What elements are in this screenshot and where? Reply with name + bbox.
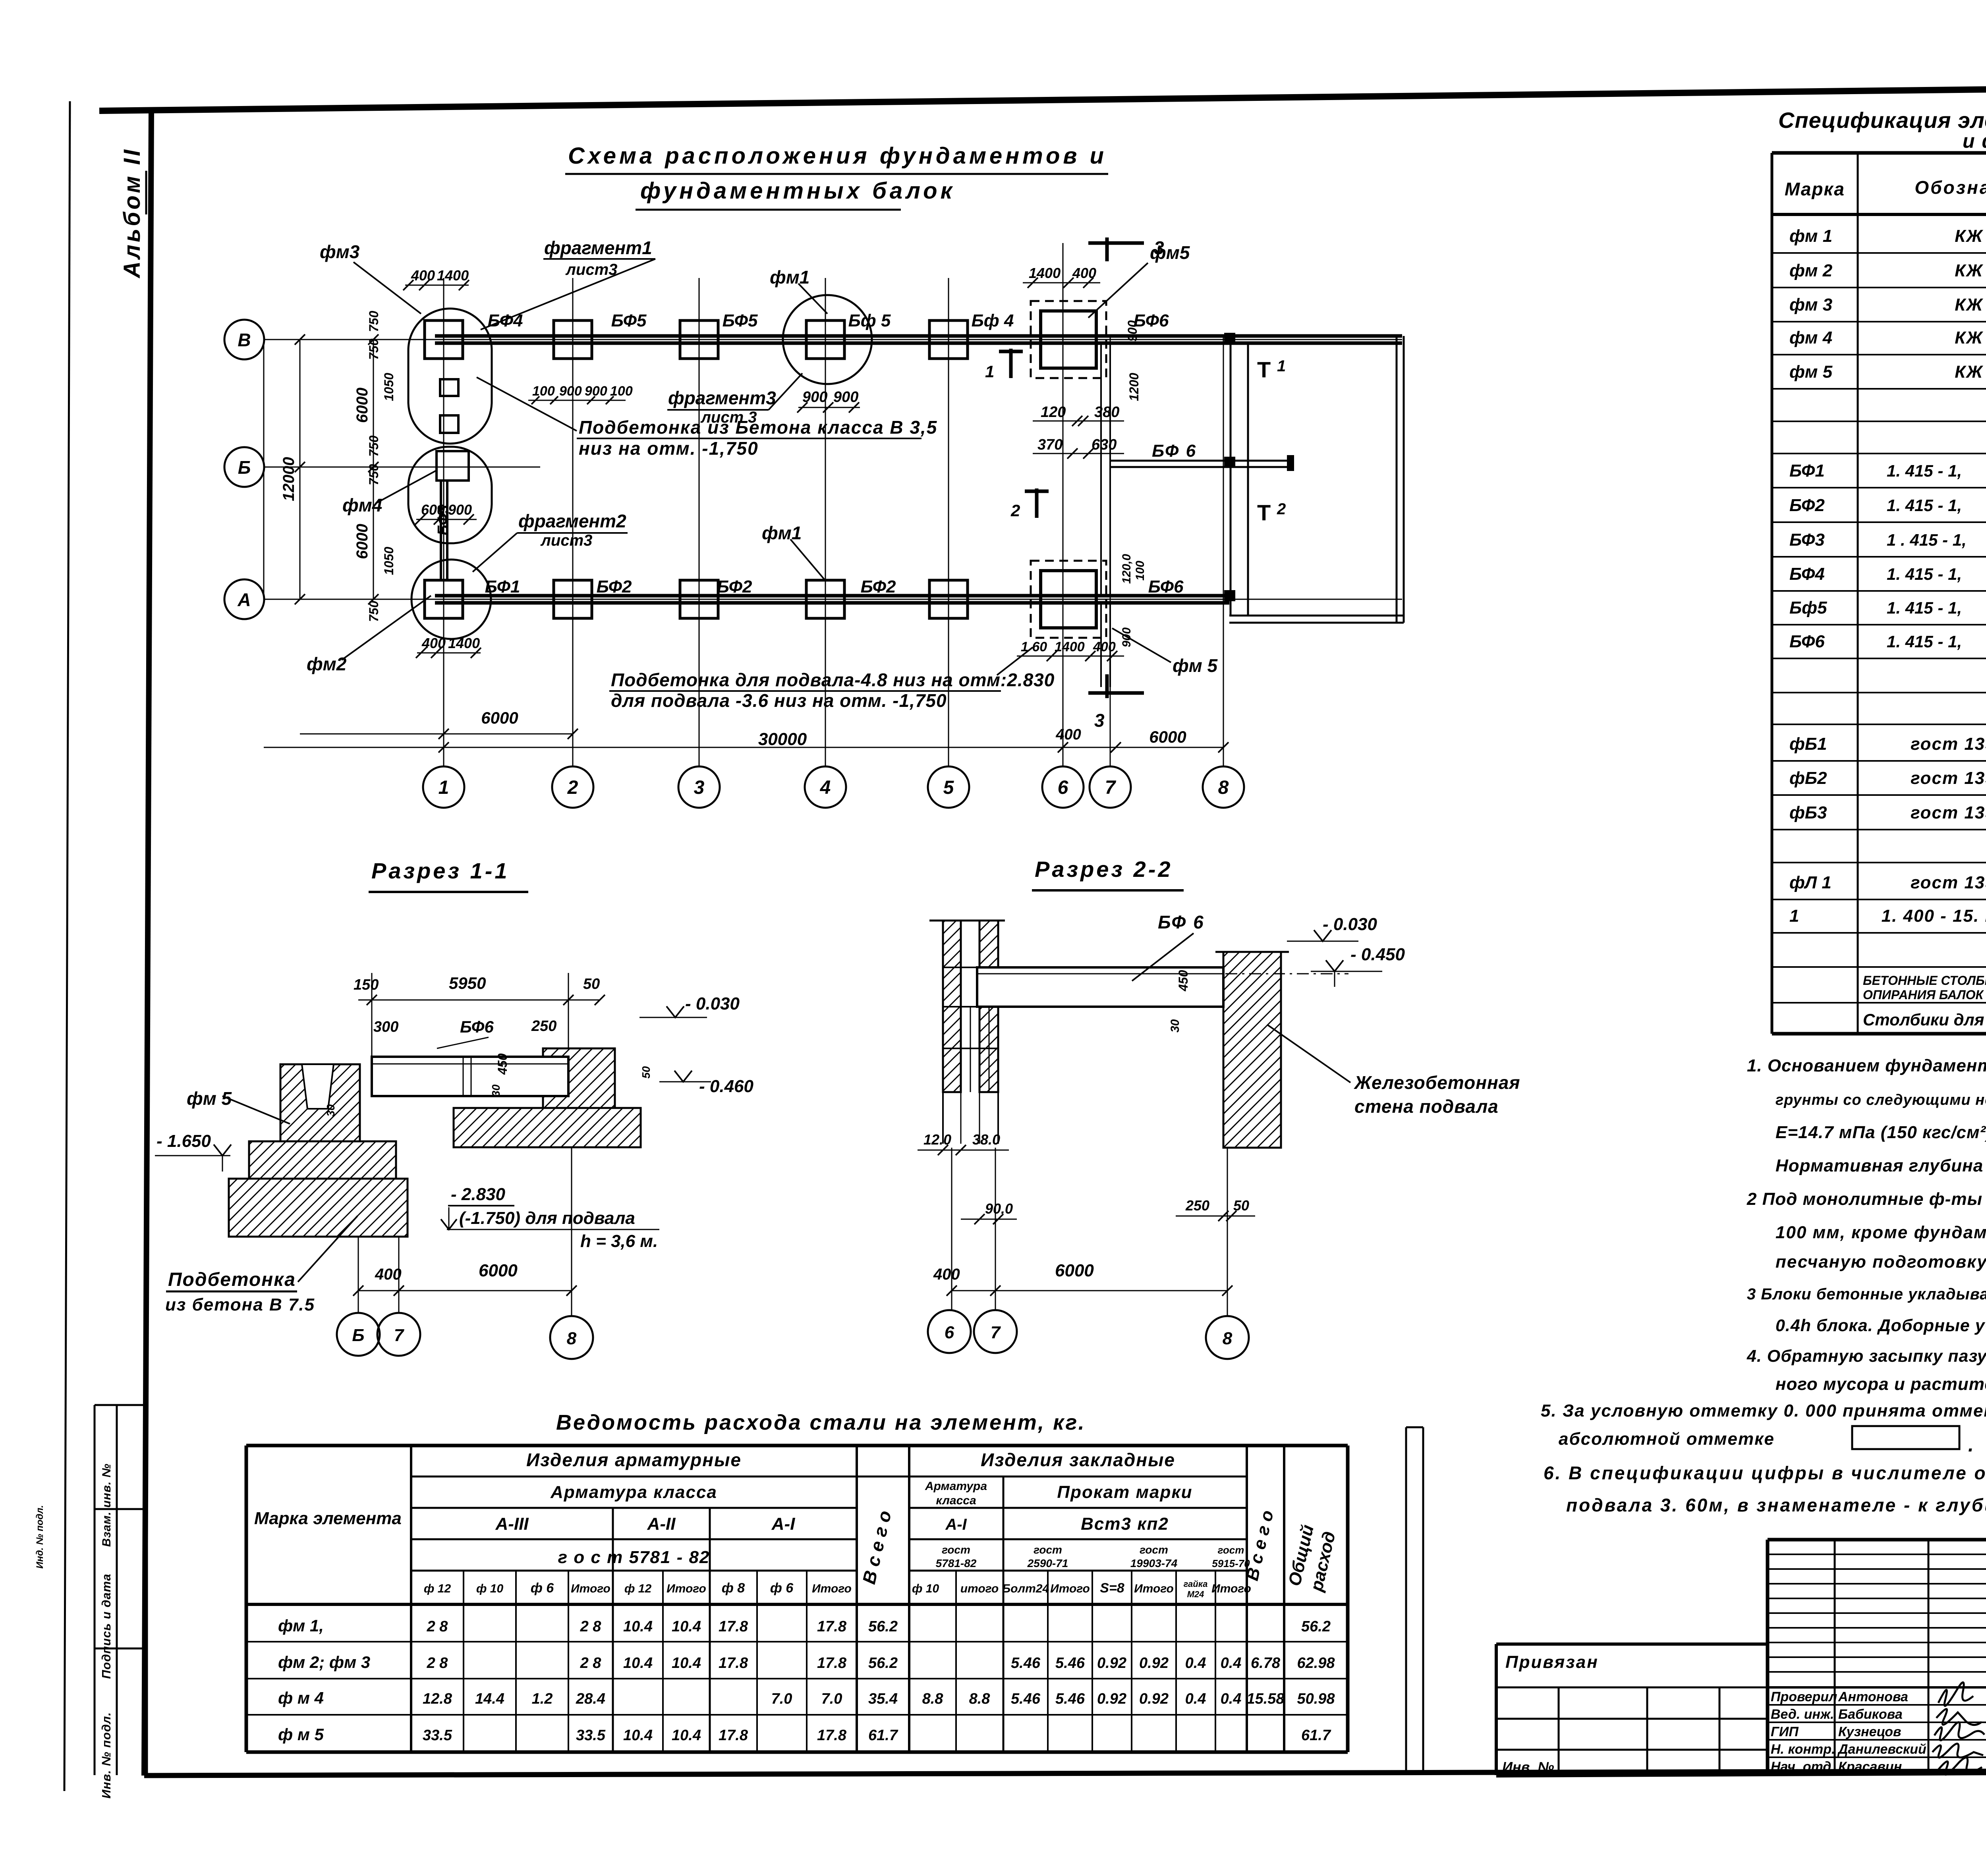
svg-text:Бф 5: Бф 5 (848, 311, 891, 330)
svg-text:гост: гост (1140, 1544, 1168, 1556)
svg-text:1. Основанием фундаментов пр: 1. Основанием фундаментов приняты сухие,… (1747, 1056, 1986, 1075)
svg-text:фм5: фм5 (1150, 242, 1190, 263)
svg-text:900: 900 (585, 384, 607, 399)
svg-text:8.8: 8.8 (969, 1691, 991, 1707)
svg-text:2 8: 2 8 (580, 1655, 602, 1671)
svg-text:БФ 6: БФ 6 (1158, 912, 1205, 932)
svg-text:БФ6: БФ6 (1789, 632, 1825, 651)
svg-text:8: 8 (567, 1329, 577, 1348)
svg-text:фундаментных балок: фундаментных балок (640, 178, 955, 204)
svg-text:7: 7 (394, 1326, 405, 1345)
svg-text:50: 50 (583, 976, 600, 992)
svg-text:1: 1 (985, 362, 994, 381)
svg-text:400: 400 (1055, 726, 1081, 743)
svg-text:Нормативная глубина промер: Нормативная глубина промерзания грунтов … (1775, 1156, 1986, 1175)
svg-text:1: 1 (439, 777, 449, 798)
svg-text:6000: 6000 (1055, 1261, 1094, 1280)
svg-text:Итого: Итого (1050, 1582, 1090, 1595)
svg-text:Вед. инж.: Вед. инж. (1771, 1707, 1834, 1722)
svg-text:2 8: 2 8 (580, 1618, 602, 1635)
svg-text:Подбетонка из Бетона класса: Подбетонка из Бетона класса В 3,5 (579, 417, 937, 438)
svg-text:7.0: 7.0 (821, 1691, 842, 1707)
svg-text:62.98: 62.98 (1297, 1655, 1335, 1671)
svg-text:61.7: 61.7 (868, 1727, 898, 1744)
svg-text:гост 13579 - 78: гост 13579 - 78 (1911, 768, 1986, 788)
svg-text:Антонова: Антонова (1838, 1689, 1908, 1704)
svg-text:2 8: 2 8 (427, 1655, 448, 1671)
svg-text:33.5: 33.5 (576, 1727, 606, 1744)
svg-text:17.8: 17.8 (719, 1655, 748, 1671)
svg-text:35.4: 35.4 (868, 1691, 898, 1707)
svg-text:7.0: 7.0 (771, 1691, 792, 1707)
svg-text:КЖ - 4: КЖ - 4 (1955, 362, 1986, 382)
svg-text:КЖ - 4: КЖ - 4 (1955, 295, 1986, 315)
svg-text:3: 3 (694, 777, 705, 798)
svg-text:низ на отм. -1,750: низ на отм. -1,750 (579, 438, 759, 459)
svg-text:А-III: А-III (495, 1514, 529, 1534)
svg-text:ф м 5: ф м 5 (278, 1725, 324, 1744)
svg-text:6000: 6000 (481, 708, 518, 727)
svg-text:КЖ - 4: КЖ - 4 (1955, 261, 1986, 280)
svg-text:Е=14.7 мПа (150 кгс/см²) ; γ =: Е=14.7 мПа (150 кгс/см²) ; γ = 1.8 т/м³ … (1775, 1123, 1986, 1142)
svg-text:900: 900 (833, 389, 858, 405)
svg-text:12.8: 12.8 (423, 1691, 452, 1707)
svg-text:1400: 1400 (1029, 265, 1061, 281)
svg-text:фм 1: фм 1 (1789, 226, 1832, 246)
svg-text:8: 8 (1223, 1329, 1233, 1348)
svg-text:1200: 1200 (1127, 373, 1141, 401)
svg-text:Т: Т (1257, 357, 1271, 382)
svg-text:0.4: 0.4 (1221, 1691, 1242, 1707)
svg-text:БФ6: БФ6 (460, 1017, 494, 1036)
svg-text:0.4h блока. Доборные участки: 0.4h блока. Доборные участки и шпонки за… (1775, 1316, 1986, 1335)
svg-text:10.4: 10.4 (623, 1618, 653, 1635)
svg-text:5781-82: 5781-82 (936, 1557, 977, 1569)
svg-text:фм 5: фм 5 (1173, 655, 1218, 676)
svg-text:Б: Б (352, 1326, 364, 1345)
svg-text:8.8: 8.8 (922, 1691, 944, 1707)
svg-text:630: 630 (1092, 436, 1117, 453)
svg-text:100 мм, кроме фундаментов п: 100 мм, кроме фундаментов по оси 6. Под … (1775, 1223, 1986, 1242)
svg-text:ф 12: ф 12 (624, 1582, 652, 1595)
svg-text:БФ1: БФ1 (1789, 461, 1825, 481)
svg-text:Подбетонка: Подбетонка (168, 1269, 296, 1290)
svg-text:5.46: 5.46 (1011, 1655, 1041, 1671)
svg-text:30: 30 (490, 1084, 502, 1097)
svg-text:Разрез 2-2: Разрез 2-2 (1035, 857, 1173, 882)
svg-text:50: 50 (640, 1066, 652, 1079)
svg-text:БЕТОННЫЕ СТОЛБИКИ ДЛЯ: БЕТОННЫЕ СТОЛБИКИ ДЛЯ (1863, 973, 1986, 988)
svg-text:Арматура: Арматура (925, 1480, 987, 1493)
svg-text:5.46: 5.46 (1055, 1655, 1085, 1671)
svg-text:Бабикова: Бабикова (1838, 1707, 1903, 1722)
svg-text:Схема расположения фундаме: Схема расположения фундаментов и (568, 143, 1107, 169)
svg-text:6: 6 (945, 1323, 954, 1342)
svg-text:фБ1: фБ1 (1789, 734, 1827, 754)
svg-text:7: 7 (1105, 777, 1117, 798)
svg-text:56.2: 56.2 (868, 1618, 898, 1635)
svg-text:1 . 415 - 1,: 1 . 415 - 1, (1887, 531, 1967, 549)
svg-text:5: 5 (943, 777, 954, 798)
svg-text:гост: гост (1034, 1544, 1062, 1556)
svg-text:Итого: Итого (667, 1582, 706, 1595)
svg-text:ф 12: ф 12 (424, 1582, 451, 1595)
svg-text:Проверил: Проверил (1771, 1689, 1837, 1704)
svg-text:6000: 6000 (354, 524, 371, 559)
svg-text:абсолютной отметке: абсолютной отметке (1559, 1429, 1775, 1449)
svg-text:56.2: 56.2 (1301, 1618, 1331, 1635)
svg-text:1: 1 (1789, 906, 1799, 926)
svg-text:Арматура класса: Арматура класса (550, 1482, 717, 1502)
svg-text:БФ5: БФ5 (611, 311, 647, 330)
svg-text:фм 1,: фм 1, (278, 1616, 324, 1635)
svg-text:33.5: 33.5 (423, 1727, 452, 1744)
svg-text:8: 8 (1218, 777, 1229, 798)
svg-text:3: 3 (1094, 710, 1105, 731)
svg-text:БФ2: БФ2 (1789, 496, 1825, 515)
svg-text:6000: 6000 (479, 1261, 518, 1280)
svg-text:1050: 1050 (382, 547, 396, 575)
svg-text:БФ2: БФ2 (717, 577, 752, 596)
svg-text:Итого: Итого (812, 1582, 852, 1595)
svg-text:17.8: 17.8 (817, 1618, 847, 1635)
svg-text:класса: класса (936, 1494, 976, 1507)
svg-text:- 0.460: - 0.460 (699, 1077, 754, 1096)
svg-text:фБ2: фБ2 (1789, 768, 1827, 788)
svg-text:Красавин: Красавин (1838, 1759, 1902, 1774)
svg-text:Альбом II: Альбом II (119, 147, 145, 279)
svg-text:М24: М24 (1187, 1589, 1204, 1599)
svg-text:30: 30 (1169, 1019, 1182, 1033)
svg-text:380: 380 (1094, 404, 1119, 421)
svg-text:10.4: 10.4 (623, 1655, 653, 1671)
svg-text:900: 900 (1120, 627, 1133, 647)
svg-text:900: 900 (559, 384, 582, 399)
svg-text:.: . (1968, 1434, 1974, 1456)
svg-text:фБ3: фБ3 (1789, 803, 1827, 822)
svg-text:- 2.830: - 2.830 (451, 1185, 506, 1204)
svg-text:гайка: гайка (1184, 1579, 1208, 1589)
svg-text:400: 400 (1093, 639, 1116, 654)
svg-text:2590-71: 2590-71 (1027, 1557, 1068, 1569)
svg-text:Изделия закладные: Изделия закладные (981, 1449, 1175, 1470)
svg-text:фм 5: фм 5 (187, 1088, 232, 1109)
svg-text:0.92: 0.92 (1139, 1655, 1169, 1671)
svg-text:450: 450 (1176, 970, 1190, 992)
svg-text:В: В (238, 330, 251, 350)
svg-text:Итого: Итого (1134, 1582, 1174, 1595)
svg-text:ф 6: ф 6 (770, 1581, 794, 1596)
svg-text:- 0.450: - 0.450 (1350, 945, 1405, 964)
svg-text:ф 8: ф 8 (722, 1581, 745, 1596)
svg-text:370: 370 (1037, 436, 1063, 453)
svg-text:Инв. № подл.: Инв. № подл. (99, 1712, 113, 1799)
svg-text:19903-74: 19903-74 (1130, 1557, 1178, 1569)
svg-text:1. 415 - 1,: 1. 415 - 1, (1887, 565, 1962, 583)
svg-text:Изделия арматурные: Изделия арматурные (526, 1449, 742, 1470)
svg-text:- 1.650: - 1.650 (156, 1131, 211, 1151)
svg-text:А-I: А-I (771, 1514, 795, 1534)
svg-text:фрагмент2: фрагмент2 (518, 511, 626, 531)
svg-text:(-1.750) для подвала: (-1.750) для подвала (459, 1208, 635, 1228)
svg-text:лист3: лист3 (540, 532, 592, 549)
svg-text:1: 1 (1277, 357, 1286, 375)
svg-text:Марка: Марка (1785, 179, 1845, 199)
svg-text:1400: 1400 (448, 635, 480, 651)
svg-text:гост 13579 - 78: гост 13579 - 78 (1911, 803, 1986, 822)
svg-text:фрагмент3: фрагмент3 (668, 388, 776, 408)
svg-text:4. Обратную засыпку пазух ф: 4. Обратную засыпку пазух фундаментов пр… (1746, 1347, 1986, 1366)
svg-text:0.4: 0.4 (1185, 1691, 1206, 1707)
svg-text:Спецификация элементов к сх: Спецификация элементов к схеме расположе… (1778, 108, 1986, 133)
svg-text:50.98: 50.98 (1297, 1691, 1335, 1707)
svg-text:Бф 4: Бф 4 (972, 311, 1014, 330)
svg-text:Инд. № подл.: Инд. № подл. (35, 1505, 45, 1569)
svg-text:БФ6: БФ6 (1148, 577, 1184, 596)
svg-text:- 0.030: - 0.030 (685, 994, 740, 1013)
svg-text:1 60: 1 60 (1021, 639, 1047, 654)
svg-text:7: 7 (991, 1323, 1001, 1342)
svg-text:6000: 6000 (354, 388, 371, 423)
svg-text:ф м 4: ф м 4 (278, 1689, 324, 1707)
svg-text:17.8: 17.8 (719, 1727, 748, 1744)
svg-text:из бетона В 7.5: из бетона В 7.5 (165, 1295, 315, 1314)
svg-text:фЛ 1: фЛ 1 (1789, 873, 1831, 892)
svg-text:песчаную подготовку толщиной: песчаную подготовку толщиной 100 мм . (1775, 1252, 1986, 1272)
svg-text:5.46: 5.46 (1055, 1691, 1085, 1707)
svg-text:Н. контр.: Н. контр. (1771, 1742, 1835, 1757)
svg-text:Бф5: Бф5 (1789, 598, 1827, 618)
svg-text:Болт24: Болт24 (1002, 1582, 1049, 1595)
svg-text:0.92: 0.92 (1097, 1691, 1126, 1707)
svg-text:2: 2 (1277, 500, 1286, 518)
svg-text:12000: 12000 (280, 457, 298, 501)
svg-text:120: 120 (1041, 404, 1066, 421)
svg-text:Вст3 кп2: Вст3 кп2 (1081, 1514, 1169, 1534)
svg-text:10.4: 10.4 (623, 1727, 653, 1744)
svg-text:0.92: 0.92 (1097, 1655, 1126, 1671)
svg-text:400: 400 (411, 267, 435, 284)
svg-text:КЖ - 4: КЖ - 4 (1955, 328, 1986, 347)
svg-text:90.0: 90.0 (985, 1200, 1013, 1217)
svg-text:250: 250 (531, 1018, 556, 1035)
svg-text:фм1: фм1 (762, 523, 802, 543)
svg-text:БФ2: БФ2 (861, 577, 896, 596)
svg-text:Б: Б (238, 457, 251, 478)
svg-text:5. За условную отметку 0. 0: 5. За условную отметку 0. 000 принята от… (1541, 1401, 1986, 1421)
svg-text:0.4: 0.4 (1221, 1655, 1242, 1671)
svg-text:фм 5: фм 5 (1789, 362, 1833, 382)
svg-text:2: 2 (1010, 501, 1020, 520)
svg-text:и фундаментных балок .: и фундаментных балок . (1963, 130, 1986, 152)
svg-text:Итого: Итого (571, 1582, 610, 1595)
svg-text:Взам. инв. №: Взам. инв. № (100, 1463, 113, 1547)
svg-text:гост: гост (942, 1544, 970, 1556)
svg-text:1400: 1400 (1055, 639, 1085, 654)
svg-text:БФ1: БФ1 (485, 577, 520, 596)
svg-text:ГИП: ГИП (1771, 1724, 1799, 1739)
svg-text:А: А (237, 589, 251, 610)
svg-text:17.8: 17.8 (817, 1655, 847, 1671)
svg-text:фм4: фм4 (342, 495, 382, 515)
svg-text:Инв. №: Инв. № (1502, 1759, 1554, 1775)
svg-text:2: 2 (567, 777, 578, 798)
svg-text:250: 250 (1185, 1197, 1209, 1214)
svg-text:гост 13579 - 78: гост 13579 - 78 (1911, 734, 1986, 754)
svg-text:61.7: 61.7 (1301, 1727, 1331, 1744)
svg-text:0.92: 0.92 (1139, 1691, 1169, 1707)
svg-text:БФ3: БФ3 (1789, 530, 1825, 550)
svg-text:1. 415 - 1,: 1. 415 - 1, (1887, 598, 1962, 617)
svg-text:1.2: 1.2 (532, 1691, 553, 1707)
svg-text:5.46: 5.46 (1011, 1691, 1041, 1707)
svg-text:14.4: 14.4 (475, 1691, 504, 1707)
svg-text:Обозначение: Обозначение (1915, 177, 1986, 198)
svg-text:1050: 1050 (382, 373, 396, 401)
svg-text:6: 6 (1058, 777, 1068, 798)
svg-text:Железобетонная: Железобетонная (1354, 1072, 1520, 1093)
svg-text:56.2: 56.2 (868, 1655, 898, 1671)
svg-text:А-I: А-I (945, 1516, 967, 1533)
svg-text:Нач. отд: Нач. отд (1771, 1759, 1831, 1774)
svg-text:100: 100 (1134, 561, 1147, 581)
svg-text:400: 400 (375, 1266, 402, 1283)
svg-text:1. 400 - 15. В1 540 - 05: 1. 400 - 15. В1 540 - 05 (1882, 906, 1986, 926)
svg-text:Столбики для ворот: Столбики для ворот (1863, 1010, 1986, 1029)
svg-text:10.4: 10.4 (672, 1727, 701, 1744)
svg-text:Данилевский: Данилевский (1837, 1742, 1926, 1757)
svg-text:фм 4: фм 4 (1789, 328, 1832, 347)
svg-text:5950: 5950 (449, 974, 486, 992)
svg-text:БФ4: БФ4 (1789, 564, 1825, 584)
svg-text:ОПИРАНИЯ БАЛОК: ОПИРАНИЯ БАЛОК (1863, 988, 1984, 1002)
svg-text:г о с т 5781 - 82: г о с т 5781 - 82 (558, 1548, 710, 1567)
svg-text:итого: итого (960, 1582, 999, 1595)
svg-text:Марка элемента: Марка элемента (254, 1509, 402, 1528)
svg-text:БФ2: БФ2 (597, 577, 632, 596)
svg-text:6. В спецификации цифры: 6. В спецификации цифры в числителе отно… (1544, 1463, 1986, 1483)
svg-text:фм 2: фм 2 (1789, 261, 1833, 280)
svg-text:стена подвала: стена подвала (1354, 1096, 1499, 1117)
svg-text:1. 415 - 1,: 1. 415 - 1, (1887, 461, 1962, 480)
svg-text:17.8: 17.8 (719, 1618, 748, 1635)
svg-text:Подбетонка для подвала-4.8 ни: Подбетонка для подвала-4.8 низ на отм:2.… (611, 670, 1055, 690)
svg-text:28.4: 28.4 (576, 1691, 605, 1707)
svg-text:1. 415 - 1,: 1. 415 - 1, (1887, 496, 1962, 515)
svg-text:3 Блоки бетонные укладывать: 3 Блоки бетонные укладывать на цементно-… (1747, 1285, 1986, 1303)
svg-text:2 8: 2 8 (427, 1618, 448, 1635)
svg-text:450: 450 (495, 1053, 510, 1075)
svg-text:Итого: Итого (1211, 1582, 1251, 1595)
svg-text:грунты со следующими нормат: грунты со следующими нормативными характ… (1775, 1092, 1986, 1108)
svg-text:БФ4: БФ4 (488, 311, 523, 330)
svg-text:гост: гост (1218, 1544, 1244, 1556)
svg-text:Прокат марки: Прокат марки (1057, 1482, 1192, 1502)
svg-text:ф 10: ф 10 (476, 1582, 504, 1595)
svg-text:ного мусора и растительного: ного мусора и растительного грунта , в с… (1775, 1374, 1986, 1394)
svg-text:фм2: фм2 (307, 654, 347, 674)
svg-text:6.78: 6.78 (1251, 1655, 1281, 1671)
svg-text:900: 900 (448, 502, 472, 518)
svg-text:S=8: S=8 (1100, 1581, 1124, 1596)
svg-text:1. 415 - 1,: 1. 415 - 1, (1887, 632, 1962, 651)
svg-text:подвала 3. 60м, в знамен: подвала 3. 60м, в знаменателе - к глубин… (1566, 1495, 1986, 1515)
svg-text:15.58: 15.58 (1246, 1691, 1285, 1707)
svg-text:Привязан: Привязан (1505, 1652, 1599, 1672)
svg-text:6000: 6000 (1149, 728, 1186, 746)
svg-text:Ведомость расхода стали: Ведомость расхода стали на элемент, кг. (556, 1411, 1086, 1434)
svg-text:БФ 6: БФ 6 (1152, 441, 1197, 461)
svg-text:0.4: 0.4 (1185, 1655, 1206, 1671)
svg-text:750: 750 (367, 311, 381, 332)
svg-text:900: 900 (1125, 320, 1140, 342)
svg-text:А-II: А-II (647, 1514, 676, 1534)
svg-text:Разрез 1-1: Разрез 1-1 (371, 858, 510, 883)
svg-text:фрагмент1: фрагмент1 (544, 237, 652, 258)
svg-text:300: 300 (373, 1019, 398, 1035)
svg-text:фм 2; фм 3: фм 2; фм 3 (278, 1653, 370, 1671)
svg-text:h = 3,6 м.: h = 3,6 м. (580, 1231, 658, 1251)
svg-text:БФ5: БФ5 (723, 311, 758, 330)
svg-text:120,0: 120,0 (1120, 554, 1133, 584)
svg-text:для подвала -3.6 низ на о: для подвала -3.6 низ на отм. -1,750 (611, 690, 947, 711)
svg-text:Т: Т (1257, 500, 1271, 525)
svg-text:гост 13580 - 85: гост 13580 - 85 (1911, 873, 1986, 892)
svg-text:фм3: фм3 (320, 241, 360, 262)
svg-text:Кузнецов: Кузнецов (1838, 1724, 1901, 1739)
svg-text:38.0: 38.0 (972, 1131, 1000, 1148)
svg-text:10.4: 10.4 (672, 1618, 701, 1635)
svg-text:фм1: фм1 (770, 267, 809, 288)
svg-text:Подпись и дата: Подпись и дата (99, 1573, 113, 1679)
svg-text:100: 100 (532, 384, 555, 399)
svg-text:30: 30 (325, 1104, 337, 1117)
svg-text:лист3: лист3 (565, 261, 617, 278)
svg-text:17.8: 17.8 (817, 1727, 847, 1744)
svg-text:150: 150 (354, 977, 379, 993)
svg-text:фм 3: фм 3 (1789, 295, 1832, 315)
svg-text:КЖ - 4: КЖ - 4 (1955, 226, 1986, 246)
svg-text:ф 10: ф 10 (912, 1582, 939, 1595)
svg-text:10.4: 10.4 (672, 1655, 701, 1671)
svg-text:2 Под монолитные ф-ты выпол: 2 Под монолитные ф-ты выполнить бетонную… (1746, 1189, 1986, 1209)
svg-text:30000: 30000 (758, 730, 807, 749)
svg-text:1400: 1400 (437, 267, 469, 284)
svg-text:4: 4 (820, 777, 831, 798)
svg-text:ф 6: ф 6 (531, 1581, 554, 1596)
svg-text:400: 400 (933, 1266, 960, 1283)
